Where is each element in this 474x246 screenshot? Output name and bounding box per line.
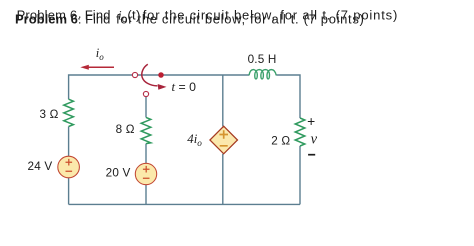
inductor L 0.5H bbox=[249, 70, 276, 79]
resistor R 2ohm bbox=[295, 118, 305, 146]
svg-text:2 Ω: 2 Ω bbox=[271, 134, 290, 147]
svg-text:io: io bbox=[96, 46, 104, 62]
svg-text:24 V: 24 V bbox=[28, 160, 53, 173]
wire bottom bbox=[69, 203, 300, 205]
switch junction dot bbox=[158, 72, 164, 78]
svg-text:t = 0: t = 0 bbox=[172, 79, 197, 94]
wire switch branch lower bbox=[145, 185, 147, 205]
switch terminal node left bbox=[132, 72, 137, 77]
svg-text:4io: 4io bbox=[187, 132, 202, 148]
svg-text:0.5 H: 0.5 H bbox=[248, 53, 277, 66]
wire inductor to right corner bbox=[276, 75, 300, 118]
wire left rail middle bbox=[68, 127, 70, 157]
resistor R 8ohm bbox=[141, 117, 151, 143]
svg-text:Problem 6: Find: Problem 6: Find bbox=[15, 12, 110, 27]
wire switch to inductor bbox=[138, 74, 249, 76]
svg-text:v: v bbox=[311, 132, 318, 148]
label v polarity minus bbox=[308, 154, 315, 156]
svg-text:+: + bbox=[307, 114, 315, 129]
current arrow io bbox=[80, 65, 114, 70]
wire top-left segment with left corner bbox=[69, 75, 133, 99]
svg-text:for the circuit below, for all: for the circuit below, for all t. (7 poi… bbox=[116, 12, 364, 27]
wire middle branch lower bbox=[222, 154, 224, 205]
switch terminal node lower bbox=[143, 91, 148, 96]
dependent source 4io bbox=[210, 126, 238, 154]
switch motion arc bbox=[142, 64, 158, 86]
svg-text:3 Ω: 3 Ω bbox=[40, 108, 59, 121]
wire switch branch middle bbox=[145, 144, 147, 164]
switch arc arrowhead bbox=[158, 84, 167, 90]
voltage source V1 24V bbox=[58, 156, 80, 178]
voltage source V2 20V bbox=[135, 163, 156, 184]
wire right rail lower bbox=[299, 146, 301, 204]
svg-text:8 Ω: 8 Ω bbox=[116, 123, 135, 136]
resistor R 3ohm bbox=[64, 99, 74, 126]
svg-text:20 V: 20 V bbox=[106, 166, 131, 179]
wire left rail lower bbox=[68, 178, 70, 205]
wire switch branch upper bbox=[145, 97, 147, 118]
wire middle branch upper bbox=[222, 75, 224, 126]
